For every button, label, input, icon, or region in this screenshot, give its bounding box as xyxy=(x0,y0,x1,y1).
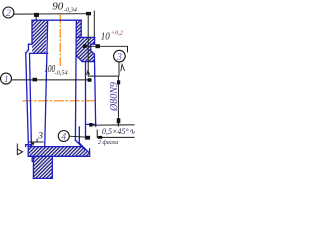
skirt line inner xyxy=(78,127,80,143)
skirt diagonal outer xyxy=(75,140,84,149)
dim 3 leader xyxy=(29,139,37,142)
svg-text:1: 1 xyxy=(4,75,9,85)
wide body left wall inner xyxy=(30,53,32,146)
balloon 3 stem xyxy=(118,62,120,76)
left wall groove notch xyxy=(28,44,32,50)
boss left wall xyxy=(32,156,34,178)
svg-text:0,5×45°∿: 0,5×45°∿ xyxy=(102,127,135,136)
flange collar lip xyxy=(26,145,31,147)
svg-text:10: 10 xyxy=(101,32,110,43)
hatch right wall section xyxy=(76,21,94,62)
recess face arrow xyxy=(89,123,92,127)
svg-text:Ø80N9: Ø80N9 xyxy=(109,82,120,112)
dim 80 jog line xyxy=(88,75,118,77)
centerline horizontal axis of side recess xyxy=(23,100,97,102)
hatch left wall section xyxy=(32,21,47,54)
right step face xyxy=(76,36,94,38)
chamfer note leader xyxy=(97,130,134,138)
dim text 10 xyxy=(101,30,124,43)
bore left wall xyxy=(45,20,48,147)
svg-text:3: 3 xyxy=(37,132,43,142)
skirt diagonal inner xyxy=(79,143,89,153)
centerline vertical axis of bore xyxy=(59,15,61,67)
right outer wall upper xyxy=(80,20,82,37)
svg-text:3: 3 xyxy=(116,52,122,63)
roughness mark on recess face left xyxy=(87,71,90,75)
balloon 4 leader xyxy=(69,136,87,137)
hatch bottom boss xyxy=(33,156,52,178)
dim 90 right extension line xyxy=(87,13,89,76)
dim 80 arrows xyxy=(117,80,120,84)
balloon 1 xyxy=(1,73,12,85)
hatch conical skirt strip xyxy=(76,140,90,153)
dim 100 arrows xyxy=(33,78,38,82)
svg-text:2 фаски: 2 фаски xyxy=(98,139,118,146)
dim 10 arrows xyxy=(83,44,87,48)
svg-text:4: 4 xyxy=(61,133,66,143)
wide body left wall outer xyxy=(26,53,29,147)
balloon 4 xyxy=(58,131,69,143)
bore right wall xyxy=(74,20,77,140)
balloon 2 xyxy=(3,7,14,19)
recess inner line xyxy=(85,62,87,139)
dim text 90 xyxy=(52,2,77,14)
recess face extension line xyxy=(91,124,135,126)
roughness symbol on flange left wall xyxy=(17,144,22,156)
dim 10 extension line xyxy=(93,11,95,38)
balloon 3 xyxy=(114,50,126,63)
left step face xyxy=(31,52,48,54)
hatch flange slab xyxy=(29,147,90,156)
boss bottom edge xyxy=(33,177,52,179)
right band bottom tick xyxy=(82,61,94,63)
recess bottom face xyxy=(86,123,96,125)
dim 90 arrows xyxy=(34,13,39,17)
balloon 2 leader / dim 90 line xyxy=(14,13,88,15)
flange top edge xyxy=(28,146,82,148)
flange bottom edge xyxy=(28,155,89,157)
arrow squares xyxy=(32,12,121,146)
top face xyxy=(32,19,81,21)
svg-text:-0,34: -0,34 xyxy=(64,6,77,13)
dim 10 line xyxy=(83,46,128,52)
svg-text:+0,2: +0,2 xyxy=(111,30,124,37)
left step chamfer xyxy=(26,50,29,53)
wide body right wall xyxy=(94,54,95,126)
balloon 4 end square xyxy=(86,136,90,140)
svg-text:100: 100 xyxy=(44,64,55,75)
dim 80 vertical line xyxy=(117,76,119,127)
dim 3 arrowhead xyxy=(32,143,35,146)
left outer wall upper xyxy=(31,20,33,44)
roughness mark on recess face right xyxy=(121,64,125,71)
boss shoulder xyxy=(32,156,33,161)
svg-text:-0,54: -0,54 xyxy=(55,70,68,77)
right outer wall xyxy=(94,37,96,44)
svg-text:2: 2 xyxy=(6,9,11,19)
flange left face xyxy=(27,147,29,157)
right band cut slant xyxy=(76,56,82,62)
balloon 1 leader / dim 100 line xyxy=(12,79,92,81)
dim text 100 xyxy=(44,64,68,77)
right groove chamfer xyxy=(91,51,95,54)
chamfer leader square xyxy=(98,136,102,139)
dim 90 left stub xyxy=(35,15,37,20)
flange right face xyxy=(89,149,91,156)
right wall groove xyxy=(91,44,95,51)
svg-text:90: 90 xyxy=(52,2,64,13)
boss right wall xyxy=(51,156,53,178)
